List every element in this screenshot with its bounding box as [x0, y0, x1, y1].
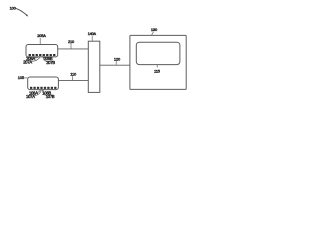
svg-text:107A: 107A	[26, 94, 35, 99]
svg-text:120: 120	[114, 56, 121, 61]
svg-text:207B: 207B	[46, 60, 55, 65]
wire 120	[100, 64, 130, 66]
wire 210	[58, 48, 89, 50]
svg-text:205A: 205A	[37, 33, 46, 38]
svg-text:130: 130	[151, 27, 158, 32]
svg-text:140A: 140A	[88, 32, 97, 36]
inner box 115	[136, 42, 180, 64]
electrode row of block 105	[30, 87, 56, 89]
svg-text:207A: 207A	[23, 60, 32, 65]
arrow leader for 100	[16, 8, 27, 15]
svg-text:210: 210	[68, 39, 75, 44]
svg-text:107B: 107B	[46, 94, 55, 99]
wire 110	[58, 80, 88, 82]
svg-text:110: 110	[70, 72, 77, 77]
driver bar 140A	[88, 41, 100, 92]
electrode row of block 205	[29, 54, 56, 56]
block 105	[28, 77, 59, 90]
block 205	[26, 45, 58, 57]
outer box 130	[130, 35, 186, 89]
svg-text:100: 100	[10, 5, 17, 10]
svg-text:115: 115	[154, 68, 161, 73]
